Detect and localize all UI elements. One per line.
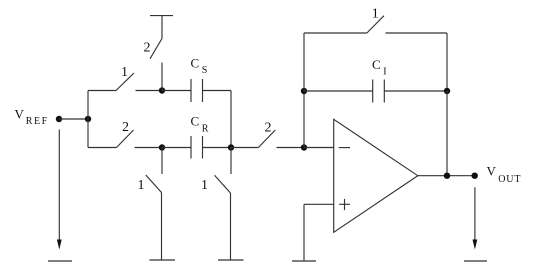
wire B down xyxy=(87,119,89,148)
wire node H down to output xyxy=(446,91,448,176)
label CR xyxy=(191,114,209,135)
svg-text:1: 1 xyxy=(138,178,145,193)
wire A to B xyxy=(59,118,88,120)
wire bottom-right switch to ground xyxy=(230,193,232,260)
switch 1 (top-left) blade xyxy=(116,73,134,91)
switch 1 (bottom left) blade xyxy=(146,175,162,193)
node F (summing node) xyxy=(301,144,307,150)
svg-text:C: C xyxy=(191,114,200,129)
wire VREF arrow shaft xyxy=(58,130,60,242)
node I (feedback tap on output) xyxy=(444,173,450,179)
wire op-amp + input xyxy=(304,203,334,205)
op-amp minus sign xyxy=(339,147,350,149)
wire VOUT arrow shaft xyxy=(474,187,476,241)
switch 1 (feedback) blade xyxy=(367,16,384,33)
ground (below VOUT arrow) xyxy=(464,260,487,262)
svg-text:1: 1 xyxy=(372,7,379,22)
wire + input down to ground xyxy=(303,204,305,261)
node A (VREF input node) xyxy=(56,116,62,122)
VREF arrowhead xyxy=(57,240,62,250)
svg-text:2: 2 xyxy=(265,121,272,136)
capacitor CR xyxy=(191,136,203,159)
svg-text:REF: REF xyxy=(26,116,49,127)
label V_OUT xyxy=(487,164,522,185)
wire op-amp output xyxy=(418,175,475,177)
wire switch2 contact to node D xyxy=(135,147,163,149)
wire node F up to node G xyxy=(303,91,305,148)
wire feedback row right xyxy=(386,32,448,34)
wire node C to CS xyxy=(162,90,191,92)
node G (CI left junction) xyxy=(301,88,307,94)
op-amp plus sign xyxy=(339,199,350,210)
node H (CI right junction) xyxy=(444,88,450,94)
wire feedback right down xyxy=(446,33,448,91)
ground (bottom-left) xyxy=(150,259,176,261)
node D xyxy=(159,144,165,150)
capacitor CS xyxy=(191,79,203,102)
wire B up to top row xyxy=(87,91,89,120)
switch 2 (left) blade xyxy=(117,130,134,148)
wire CS down to bottom row xyxy=(230,91,232,148)
svg-text:2: 2 xyxy=(144,40,151,55)
wire switch 2 stem xyxy=(161,16,163,39)
svg-text:V: V xyxy=(15,106,25,121)
wire switch2 contact to node F xyxy=(277,147,305,149)
ground (bottom-right of caps) xyxy=(218,259,244,261)
wire switch1 contact to node C xyxy=(136,90,163,92)
wire bottom-left switch to ground xyxy=(161,193,163,261)
node J (VOUT node) xyxy=(472,173,478,179)
svg-text:I: I xyxy=(383,67,386,78)
ground (top bar) xyxy=(150,15,173,17)
svg-text:V: V xyxy=(487,164,497,179)
wire node G to CI xyxy=(304,90,373,92)
wire node D to CR xyxy=(162,147,191,149)
switch 1 (bottom right) blade xyxy=(215,175,231,193)
svg-text:1: 1 xyxy=(201,178,208,193)
label CS xyxy=(191,56,208,76)
wire bottom row left xyxy=(88,147,117,149)
node C xyxy=(159,87,165,93)
wire node E stub down xyxy=(230,148,232,175)
ground (below VREF arrow) xyxy=(48,260,72,262)
svg-text:1: 1 xyxy=(121,65,128,80)
capacitor CI xyxy=(373,80,385,103)
wire node G up to feedback switch row xyxy=(303,33,305,91)
wire node C up xyxy=(161,63,163,91)
switch 2 (top vertical) blade xyxy=(150,39,162,59)
svg-text:C: C xyxy=(372,57,381,72)
svg-text:C: C xyxy=(191,56,200,71)
switch 2 (right) blade xyxy=(258,130,275,148)
label V_REF xyxy=(15,106,49,127)
wire node D stub down xyxy=(161,148,163,175)
svg-text:OUT: OUT xyxy=(498,174,521,185)
wire top row left xyxy=(88,90,116,92)
wire node F to op-amp inverting input xyxy=(304,147,334,149)
wire CI right to node H xyxy=(384,90,447,92)
svg-text:2: 2 xyxy=(122,120,129,135)
label CI xyxy=(372,57,387,78)
wire CS right xyxy=(203,90,232,92)
VOUT arrowhead xyxy=(473,240,478,250)
svg-text:R: R xyxy=(202,124,209,135)
node B xyxy=(85,116,91,122)
op-amp U1 xyxy=(334,119,418,232)
wire CR right to node E xyxy=(203,147,232,149)
node E xyxy=(228,144,234,150)
wire feedback row left xyxy=(304,32,367,34)
ground (below + input) xyxy=(292,260,316,262)
svg-text:S: S xyxy=(202,65,208,76)
wire node E right xyxy=(231,147,258,149)
